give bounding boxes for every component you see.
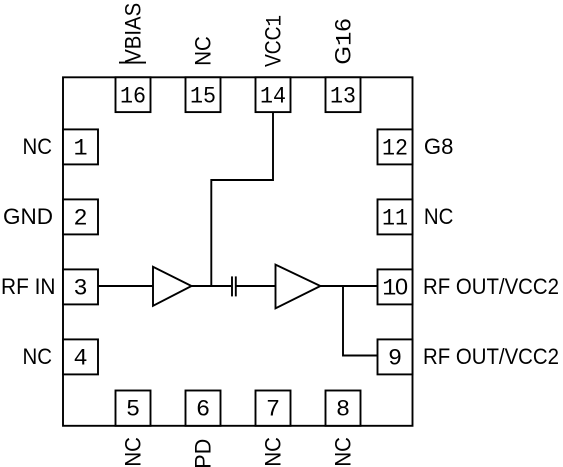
svg-text:5: 5 (126, 396, 140, 423)
svg-text:RF OUT/VCC2: RF OUT/VCC2 (423, 274, 559, 299)
svg-text:3: 3 (73, 276, 87, 303)
wire VCC1 pin14 down (211, 112, 273, 286)
svg-text:VBIAS: VBIAS (120, 3, 145, 63)
svg-text:2: 2 (73, 206, 87, 233)
svg-text:PD: PD (191, 439, 216, 467)
pin 11 box (378, 199, 413, 234)
pin 13 box (326, 77, 361, 112)
pin 1 box (63, 129, 98, 164)
pin 7 box (256, 391, 291, 426)
amplifier A1 (first stage triangle) (153, 267, 192, 306)
svg-text:1: 1 (73, 136, 87, 163)
svg-text:NC: NC (121, 437, 146, 467)
svg-text:RF IN: RF IN (1, 274, 56, 299)
svg-text:VCC1: VCC1 (260, 15, 287, 67)
pin 2 box (63, 199, 98, 234)
amplifier A2 (second stage triangle) (276, 265, 321, 309)
svg-text:NC: NC (424, 204, 454, 229)
svg-text:13: 13 (330, 84, 356, 111)
svg-text:9: 9 (388, 346, 402, 373)
svg-text:NC: NC (261, 437, 286, 467)
wire amp1 output to capacitor (192, 285, 232, 287)
pin 14 box (256, 77, 291, 112)
svg-text:14: 14 (260, 84, 286, 111)
pin 3 box (63, 269, 98, 304)
svg-text:7: 7 (266, 396, 280, 423)
pin 8 box (326, 391, 361, 426)
svg-text:NC: NC (190, 36, 215, 66)
pin 10 number (382, 274, 408, 303)
svg-text:0: 0 (395, 274, 408, 300)
pin 16 box (116, 77, 151, 112)
pin 5 box (116, 391, 151, 426)
wire pin3 to amp1 input (98, 285, 153, 287)
pin 9 box (378, 339, 413, 374)
svg-text:6: 6 (196, 396, 210, 423)
svg-text:12: 12 (382, 136, 408, 163)
svg-text:8: 8 (336, 396, 350, 423)
pin 15 box (186, 77, 221, 112)
pin 12 box (378, 129, 413, 164)
capacitor C1 plate 2 (235, 276, 237, 296)
wire capacitor to amp2 input (236, 285, 276, 287)
svg-text:NC: NC (23, 344, 53, 369)
svg-text:4: 4 (73, 346, 87, 373)
capacitor C1 plate 1 (231, 276, 233, 296)
VBIAS underline (119, 62, 146, 64)
svg-text:RF OUT/VCC2: RF OUT/VCC2 (423, 344, 559, 369)
pin 4 box (63, 339, 98, 374)
svg-text:16: 16 (120, 84, 146, 111)
package outline U1 (QFN-16 body) (63, 77, 413, 426)
svg-text:NC: NC (23, 134, 53, 159)
wire amp2 output to pin10 (320, 285, 377, 287)
wire branch down to pin9 (343, 286, 378, 356)
svg-text:GND: GND (3, 204, 53, 229)
svg-text:15: 15 (190, 84, 216, 111)
svg-text:11: 11 (382, 206, 408, 233)
svg-text:G16: G16 (330, 18, 357, 64)
pin 10 box (378, 269, 413, 304)
pin 6 box (186, 391, 221, 426)
svg-text:NC: NC (331, 437, 356, 467)
svg-text:G8: G8 (424, 134, 454, 159)
